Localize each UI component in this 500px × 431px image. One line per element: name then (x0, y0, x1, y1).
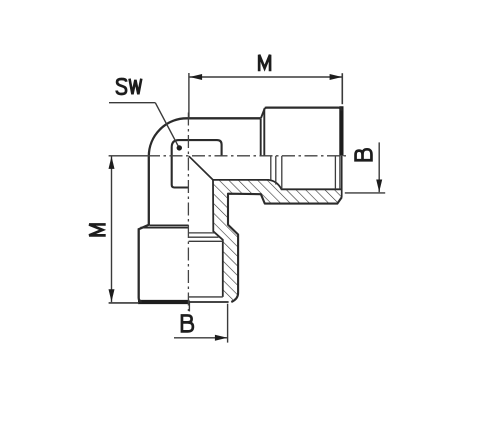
thread runout lines, bottom port (189, 232, 215, 234)
bottom nut outline (left side) (139, 225, 149, 302)
face chamfer lines, right port (334, 156, 336, 190)
label SW (117, 79, 142, 95)
SW leader line (109, 102, 155, 104)
vertical centerline (187, 113, 189, 312)
bottom nut shoulder double lines (149, 224, 188, 226)
thread runout lines, right port (270, 156, 272, 180)
bottom port face line: thick left of centerline, thin right (138, 300, 190, 304)
dimension B right: line and arrow (378, 142, 380, 192)
dimension B right: extension line (345, 192, 385, 194)
dimension M left: line and arrows (111, 156, 113, 302)
label B bottom (182, 314, 193, 333)
shoulder double line, right port (260, 118, 262, 156)
right port face line: thick above centerline, thin below (339, 106, 343, 156)
outer profile in section: right nut, neck, bottom nut (228, 194, 342, 302)
dimension B bottom: line and arrow (174, 337, 228, 339)
cone diagonal where the two bores meet (189, 156, 213, 180)
horizontal centerline (147, 155, 348, 157)
section hatch fill (cut material of elbow body walls) (213, 180, 342, 302)
dimension B bottom: extension lines (188, 303, 190, 312)
dimension M left: extension line bottom (109, 302, 139, 304)
face chamfer line, bottom port (189, 296, 223, 298)
elbow outer profile: left edge, corner arc, top edge (149, 118, 261, 225)
label M top (259, 55, 270, 72)
bevel at top of shoulder (261, 108, 265, 118)
label B right (rotated) (354, 149, 373, 160)
horizontal centerline solid left part / M extension (109, 155, 147, 157)
dimension M top: extension lines (188, 73, 190, 119)
bore line bottom port (section) (213, 180, 223, 297)
bore line right port (section) (213, 180, 342, 189)
dimension M top: line and arrows (189, 76, 342, 78)
wrench flats block (SW) (172, 140, 222, 187)
SW leader dot (177, 145, 182, 150)
label M left (rotated) (89, 224, 106, 235)
right nut outline (top edge) (265, 108, 342, 111)
